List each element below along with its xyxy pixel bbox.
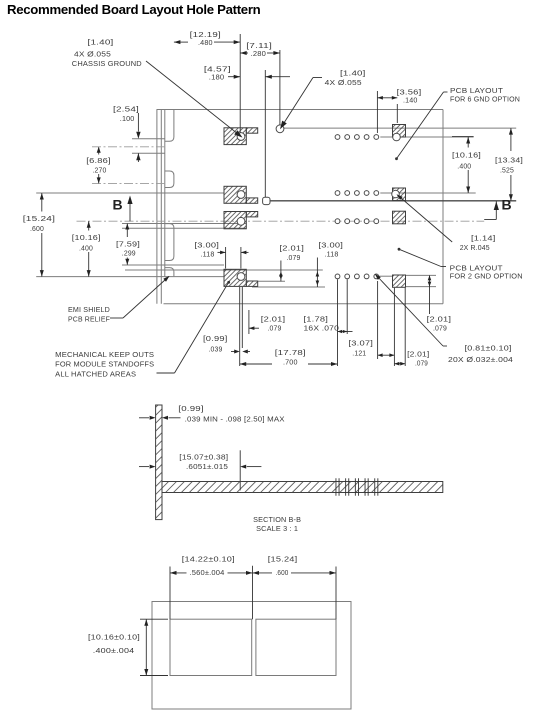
dim 7.11 extension line: [279, 50, 281, 125]
leader keep outs: [157, 372, 175, 374]
svg-text:[15.07±0.38]: [15.07±0.38]: [179, 454, 228, 462]
dim 15.07 extension line: [239, 450, 241, 490]
svg-text:.039 MIN - .098 [2.50] MAX: .039 MIN - .098 [2.50] MAX: [185, 415, 285, 423]
dim 2.01 left bottom extension: [248, 310, 250, 334]
section marker B left arrow: [129, 199, 131, 221]
svg-text:[1.78]: [1.78]: [304, 315, 329, 323]
dim 2.01 bottom mid line: [394, 363, 405, 365]
svg-text:[13.34]: [13.34]: [495, 157, 523, 165]
dim 10.16 bottom line: [145, 619, 147, 675]
EMI shield wall outer line: [156, 110, 158, 304]
leader chassis ground hole: [313, 77, 322, 79]
svg-text:[0.81±0.10]: [0.81±0.10]: [465, 345, 512, 353]
svg-text:.180: .180: [209, 74, 225, 82]
leader 2X R.045: [398, 195, 453, 242]
wire hole row 1 line: [380, 136, 473, 138]
svg-text:.299: .299: [122, 250, 136, 258]
svg-text:[10.16]: [10.16]: [452, 152, 481, 160]
EMI shield wall inner line: [160, 110, 162, 304]
svg-text:[6.86]: [6.86]: [86, 157, 111, 165]
wire module line lower: [122, 264, 224, 266]
dim 3.56 line: [377, 97, 397, 99]
leader 20X holes: [376, 275, 444, 347]
svg-text:[7.11]: [7.11]: [246, 42, 272, 50]
shield tab T3: [165, 224, 174, 261]
svg-text:[2.01]: [2.01]: [280, 244, 305, 252]
svg-text:4X Ø.055: 4X Ø.055: [74, 51, 111, 59]
svg-text:.118: .118: [201, 250, 215, 258]
svg-text:4X Ø.055: 4X Ø.055: [325, 79, 362, 87]
hole row 1 small holes: [335, 135, 340, 140]
svg-text:FOR MODULE STANDOFFS: FOR MODULE STANDOFFS: [55, 361, 154, 369]
svg-text:.400: .400: [79, 245, 93, 253]
svg-text:.140: .140: [403, 97, 418, 105]
svg-text:.560±.004: .560±.004: [190, 569, 225, 577]
dim 6.86 line: [98, 147, 100, 154]
dim 0.99 hole extension lines: [239, 287, 241, 366]
dim 15.07 arrows: [139, 466, 149, 468]
hole square pad row 1: [393, 133, 401, 141]
hole row 2 small holes: [335, 191, 340, 196]
svg-text:[15.24]: [15.24]: [268, 555, 298, 563]
hole block 3: [237, 217, 245, 225]
svg-text:[1.40]: [1.40]: [88, 39, 114, 47]
hole centerline row small holes: [335, 219, 340, 224]
wire hole row 2 right line: [380, 192, 475, 194]
svg-text:.079: .079: [415, 360, 428, 368]
hatched pad block 2: [224, 186, 246, 203]
section PCB bar: [162, 482, 443, 493]
dim 12.19 right extension line: [239, 34, 241, 133]
section line B-B: [270, 200, 516, 202]
dim 0.99 section arrows: [139, 417, 149, 419]
svg-text:.600: .600: [276, 569, 289, 577]
svg-text:[2.01]: [2.01]: [261, 315, 286, 323]
dim 17.78 line: [240, 363, 272, 365]
svg-text:.039: .039: [209, 346, 223, 354]
dim 7.11 line: [240, 52, 248, 54]
dim 2.01 mid line: [280, 261, 282, 271]
svg-text:[15.24]: [15.24]: [23, 215, 55, 223]
svg-text:.6051±.015: .6051±.015: [186, 463, 228, 471]
shield PCB relief notch: [165, 268, 174, 277]
svg-text:[2.01]: [2.01]: [407, 351, 429, 359]
wire module line dark: [122, 227, 246, 229]
hole block 4: [237, 273, 245, 281]
svg-text:[12.19]: [12.19]: [190, 31, 221, 39]
dim 10.16 right line: [467, 137, 469, 148]
dim 3.56 extension lines: [376, 91, 378, 133]
svg-text:.480: .480: [198, 39, 213, 47]
svg-text:16X .070: 16X .070: [304, 325, 340, 333]
svg-text:[3.07]: [3.07]: [349, 339, 374, 347]
svg-text:.079: .079: [287, 254, 301, 262]
dim 2.54 elbow: [137, 113, 139, 132]
svg-text:.700: .700: [283, 358, 298, 366]
shield tab T1: [165, 110, 174, 142]
dim 3.07 extension lines: [377, 281, 379, 359]
svg-text:.280: .280: [251, 50, 266, 58]
svg-text:[3.00]: [3.00]: [319, 241, 344, 249]
hatched pad block 1: [224, 128, 246, 145]
hatched pad block 3: [224, 212, 246, 229]
wire top ground line: [284, 127, 517, 129]
dim 3.00 left arrows: [218, 251, 226, 253]
svg-text:.270: .270: [93, 166, 107, 174]
svg-text:B: B: [502, 197, 512, 213]
svg-text:2X R.045: 2X R.045: [460, 244, 490, 252]
wire PCB outline bottom edge: [164, 303, 444, 305]
hole row 3 small holes: [335, 274, 340, 279]
svg-text:.400: .400: [457, 163, 471, 171]
wire hole row 3 right segment: [378, 275, 392, 277]
svg-text:[1.40]: [1.40]: [340, 70, 366, 78]
svg-text:PCB LAYOUT: PCB LAYOUT: [450, 265, 504, 273]
dim 13.34 line: [510, 128, 512, 151]
dim 15.24 line: [41, 193, 43, 212]
dim 1.78 extension lines: [337, 279, 339, 366]
svg-text:[2.01]: [2.01]: [427, 315, 452, 323]
svg-text:[1.14]: [1.14]: [471, 235, 496, 243]
svg-text:[0.99]: [0.99]: [203, 335, 228, 343]
hatched square pad row 2: [393, 188, 406, 201]
dim 4.57 extension line: [264, 70, 266, 197]
svg-text:[4.57]: [4.57]: [204, 65, 231, 73]
wire PCB outline right edge: [442, 110, 444, 304]
section hole walls: [335, 478, 337, 495]
centerline main: [77, 220, 485, 222]
svg-text:[2.54]: [2.54]: [113, 106, 139, 114]
shield tab T2: [165, 171, 174, 187]
leader 6 gnd option: [444, 91, 448, 93]
wire tab bottom extension C: [252, 286, 325, 288]
dim 4.57 line: [228, 76, 240, 78]
wire square 3 upper right line: [406, 274, 437, 276]
svg-text:PCB RELIEF: PCB RELIEF: [68, 316, 110, 324]
leader chassis ground block 1: [146, 61, 241, 136]
svg-text:.525: .525: [500, 167, 514, 175]
wire band line lower: [132, 152, 165, 154]
svg-text:ALL HATCHED AREAS: ALL HATCHED AREAS: [55, 370, 136, 378]
hole block 2: [237, 191, 245, 199]
svg-text:CHASSIS GROUND: CHASSIS GROUND: [72, 60, 142, 68]
svg-text:[3.00]: [3.00]: [195, 241, 220, 249]
dim 10.16 left line: [88, 221, 90, 230]
dim 3.00 left extension lines: [225, 247, 227, 269]
svg-text:[7.59]: [7.59]: [116, 241, 140, 249]
dim 3.07 line: [378, 354, 395, 356]
section shield bar: [156, 405, 162, 520]
centerline band 1: [92, 146, 166, 148]
svg-text:B: B: [113, 197, 123, 213]
dim 12.19 line: [174, 41, 188, 43]
hatched square pad row 1: [393, 125, 406, 138]
hatched square pad centerline: [393, 211, 406, 224]
bottom view cutout left: [170, 619, 252, 675]
svg-text:[17.78]: [17.78]: [275, 349, 306, 357]
wire module line upper: [122, 223, 246, 225]
dim 10.16 bottom ticks: [140, 618, 168, 620]
hole block 1 chassis ground: [237, 133, 245, 141]
wire hole row 2 left extension: [36, 192, 224, 194]
svg-text:.600: .600: [30, 225, 44, 233]
section marker B right elbow: [484, 219, 496, 221]
dim 1.78 line: [338, 331, 348, 333]
hole chassis ground top left: [276, 125, 284, 133]
dim 2.54 arrows: [136, 132, 140, 139]
wire board bottom edge A: [125, 269, 323, 271]
dim 2.01 right line: [429, 275, 431, 314]
hole square pad row 2: [392, 190, 400, 198]
wire PCB outline top edge: [157, 109, 444, 111]
svg-text:FOR 2 GND OPTION: FOR 2 GND OPTION: [450, 273, 523, 281]
svg-text:[0.99]: [0.99]: [178, 405, 204, 413]
dim 0.99 arrows: [231, 351, 236, 353]
svg-text:.100: .100: [120, 115, 135, 123]
dim 2.01 left bottom line: [249, 327, 259, 329]
svg-text:SECTION B-B: SECTION B-B: [253, 516, 301, 524]
dim 14.22 extension lines: [169, 567, 171, 620]
centerline band 2: [92, 182, 166, 184]
svg-text:EMI SHIELD: EMI SHIELD: [68, 306, 110, 314]
wire pad bottom edge B: [258, 280, 285, 282]
dim 15.24 bottom line: [253, 572, 273, 574]
svg-text:[14.22±0.10]: [14.22±0.10]: [182, 555, 235, 563]
svg-text:.118: .118: [325, 250, 339, 258]
svg-text:MECHANICAL KEEP OUTS: MECHANICAL KEEP OUTS: [55, 351, 154, 359]
hatched pad block 4: [224, 269, 246, 286]
title: [7, 2, 260, 17]
dim 14.22 line: [170, 572, 187, 574]
wire band line upper: [132, 138, 165, 140]
wire hole row 3 left extension: [36, 276, 224, 278]
hatched square pad row 3: [393, 275, 406, 287]
dim 7.59 line: [126, 224, 128, 238]
svg-text:.121: .121: [352, 349, 366, 357]
wire square 3 lower right line: [406, 286, 437, 288]
dim 10.16 right tick: [452, 136, 474, 138]
leader 2 gnd option: [441, 266, 446, 268]
svg-text:PCB LAYOUT: PCB LAYOUT: [450, 87, 504, 95]
svg-text:SCALE 3 : 1: SCALE 3 : 1: [256, 525, 298, 533]
svg-text:.079: .079: [268, 325, 282, 333]
svg-text:20X Ø.032±.004: 20X Ø.032±.004: [448, 356, 513, 364]
svg-text:[3.56]: [3.56]: [397, 89, 422, 97]
svg-text:.079: .079: [433, 325, 447, 333]
pad pin 1 square: [263, 197, 270, 204]
svg-text:[10.16±0.10]: [10.16±0.10]: [88, 633, 140, 641]
bottom view cutout right: [256, 619, 336, 675]
svg-text:FOR 6 GND OPTION: FOR 6 GND OPTION: [450, 96, 520, 104]
svg-text:.400±.004: .400±.004: [93, 647, 135, 655]
dim 2.01 bottom mid extension: [393, 288, 395, 366]
dim 3.00 right line: [316, 258, 318, 271]
svg-text:[10.16]: [10.16]: [72, 234, 101, 242]
bottom view outer rectangle: [152, 602, 351, 710]
leader EMI shield relief: [110, 317, 123, 319]
EMI shield flange line: [164, 110, 166, 277]
